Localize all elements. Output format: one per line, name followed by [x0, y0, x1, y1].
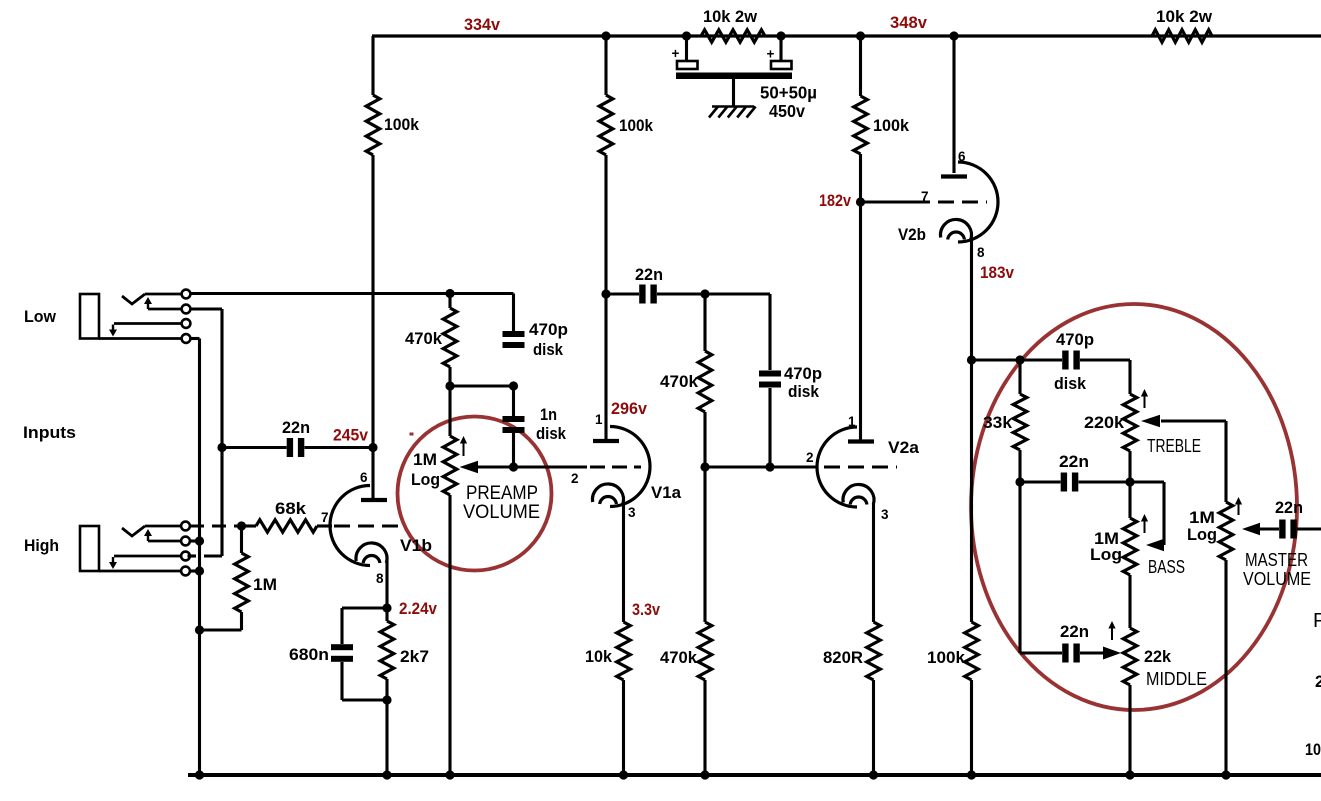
node junction ground bus High switch: [195, 536, 204, 545]
svg-text:High: High: [24, 537, 59, 555]
connector terminal Low sleeve: [182, 334, 191, 343]
connector terminal High sleeve: [181, 567, 190, 576]
potentiometer 1M Log master volume: [1219, 502, 1233, 560]
node junction HT filter cap right: [776, 31, 785, 40]
svg-text:470p: 470p: [529, 321, 568, 339]
connector High input jack: [80, 526, 99, 571]
wire output to tone stack top: [972, 358, 1063, 361]
potentiometer 1M Log preamp volume: [448, 386, 451, 436]
node junction HT to V1a plate resistor: [601, 31, 610, 40]
node junction ground bus High sleeve: [195, 566, 204, 575]
svg-text:Log: Log: [1090, 546, 1122, 564]
svg-text:470k: 470k: [660, 649, 698, 667]
node junction disk caps mid: [509, 381, 518, 390]
node junction 1n to wiper wire: [509, 462, 518, 471]
resistor 100k tail to ground: [965, 622, 979, 680]
capacitor 22n bass: [1061, 473, 1067, 492]
node junction 33k to 22n bass: [1015, 477, 1024, 486]
wire 22n to 245v plate node: [305, 446, 374, 449]
wire V1b cathode to 2.24v node: [385, 559, 388, 608]
wire HT rail 334v/348v top: [372, 34, 1321, 37]
node junction to 22n input coupling: [217, 443, 226, 452]
node junction ground 470k: [700, 770, 709, 779]
svg-text:V1a: V1a: [651, 484, 682, 502]
capacitor 50+50u 450v filter can: [685, 36, 688, 61]
svg-text:245v: 245v: [333, 426, 368, 445]
wiper arrow treble: [1141, 415, 1160, 428]
svg-text:3: 3: [628, 505, 636, 520]
node junction ground master pot: [1221, 770, 1230, 779]
node junction ground preamp pot: [445, 770, 454, 779]
svg-text:22n: 22n: [282, 419, 310, 437]
red highlight circle around preamp volume pot: [398, 417, 552, 571]
wire V2b plate from HT: [952, 36, 955, 173]
svg-text:2: 2: [571, 471, 579, 486]
svg-text:2k7: 2k7: [400, 648, 429, 666]
svg-text:disk: disk: [1054, 375, 1087, 393]
node junction HT filter cap left: [682, 31, 691, 40]
svg-text:V1b: V1b: [400, 537, 432, 555]
svg-text:820R: 820R: [823, 649, 863, 667]
wire wiper to V1a grid: [514, 465, 588, 468]
svg-text:6: 6: [360, 470, 368, 485]
red highlight ellipse around tone stack: [971, 304, 1297, 710]
wire V1b grid dashes: [334, 524, 402, 527]
svg-text:334v: 334v: [464, 15, 501, 34]
wire ground rail: [188, 773, 1321, 777]
wire 22n to V2a grid network: [657, 292, 770, 295]
wire 182v to V2b grid: [861, 200, 931, 203]
wire 33k node to 22n bass cap: [1020, 480, 1061, 483]
node junction treble/bass: [1125, 477, 1134, 486]
svg-text:+: +: [767, 47, 775, 62]
wire V1a cathode down: [622, 503, 625, 622]
resistor 470k V2a grid leak upper: [703, 294, 706, 351]
resistor 100k V1a plate load: [604, 36, 607, 95]
node junction ground 820R: [869, 770, 878, 779]
node junction 33k tap: [1015, 355, 1024, 364]
capacitor 680n cathode bypass: [342, 606, 387, 609]
node junction 182v: [856, 197, 865, 206]
connector terminal Low contact 3: [182, 319, 191, 328]
resistor 10k 2w (second HT dropper): [1152, 30, 1212, 42]
node junction V1a plate to 22n: [601, 289, 610, 298]
resistor 820R V2a cathode: [867, 622, 881, 680]
svg-text:348v: 348v: [890, 13, 928, 32]
wire High tip dashed link to grid node: [190, 524, 238, 527]
svg-text:Log: Log: [1187, 526, 1217, 544]
svg-text:1M: 1M: [1189, 509, 1215, 527]
wire master 22n to edge: [1297, 527, 1321, 530]
svg-text:+: +: [672, 46, 680, 61]
stray red mark: [410, 433, 414, 436]
svg-text:8: 8: [977, 245, 985, 260]
capacitor 22n master output: [1279, 520, 1285, 539]
capacitor 470p disk V2a: [768, 294, 771, 370]
wire V2a cathode down: [872, 504, 875, 622]
svg-text:Inputs: Inputs: [23, 424, 76, 442]
node junction cathode follower output: [967, 355, 976, 364]
svg-text:VOLUME: VOLUME: [1243, 569, 1311, 589]
svg-text:450v: 450v: [769, 101, 805, 121]
svg-text:Log: Log: [411, 471, 440, 489]
svg-text:10k 2w: 10k 2w: [703, 8, 757, 26]
triode V1b: [330, 486, 370, 566]
svg-text:TREBLE: TREBLE: [1147, 436, 1201, 456]
svg-text:100k: 100k: [619, 117, 654, 135]
wire 22n bass to treble bottom junction: [1079, 480, 1131, 483]
svg-text:22k: 22k: [1144, 648, 1172, 666]
wire High sleeve to ground bus: [190, 569, 200, 572]
potentiometer 22k middle: [1123, 628, 1137, 685]
resistor 470k lower to ground: [703, 467, 706, 622]
svg-text:470p: 470p: [784, 365, 822, 383]
svg-text:disk: disk: [788, 383, 820, 401]
wire 470p to treble pot top: [1080, 358, 1130, 361]
wire V2a plate node 182v direct coupling: [859, 154, 862, 440]
svg-text:8: 8: [376, 571, 384, 586]
wire 1M bottom to ground bus: [240, 612, 243, 630]
svg-text:VOLUME: VOLUME: [463, 501, 540, 523]
svg-text:6: 6: [958, 149, 966, 164]
svg-text:disk: disk: [536, 425, 567, 443]
svg-text:22n: 22n: [1275, 499, 1303, 517]
wire V1a plate node 296v: [604, 155, 607, 439]
svg-text:22n: 22n: [1060, 623, 1089, 641]
node junction 680n/2k7 bottom: [382, 695, 391, 704]
node junction ground 10k: [619, 770, 628, 779]
node junction V2a grid 470p: [765, 462, 774, 471]
svg-text:22n: 22n: [1059, 453, 1089, 471]
triode V2a: [817, 427, 857, 507]
svg-text:V2a: V2a: [888, 439, 920, 457]
resistor 68k grid stopper: [242, 524, 257, 527]
wire V2b grid dashes: [938, 200, 987, 203]
svg-text:470k: 470k: [405, 330, 443, 348]
svg-text:1: 1: [595, 412, 603, 427]
capacitor 470p disk treble cap: [1062, 351, 1068, 370]
node junction ground middle pot: [1125, 770, 1134, 779]
svg-text:7: 7: [321, 510, 329, 525]
resistor 33k tone slope: [1018, 360, 1021, 394]
wire V1a grid dashes: [590, 465, 641, 468]
node junction top of 470k grid leak: [445, 289, 454, 298]
resistor 470k slope/grid-leak: [448, 294, 451, 309]
svg-text:33k: 33k: [983, 414, 1013, 432]
wire cathode network to ground rail: [385, 679, 388, 775]
svg-text:100k: 100k: [927, 649, 966, 667]
resistor 2k7 cathode bias: [385, 608, 388, 621]
svg-text:10k: 10k: [585, 648, 613, 666]
svg-text:1M: 1M: [413, 451, 437, 469]
triode V2b: [958, 162, 998, 242]
svg-text:100k: 100k: [384, 116, 420, 134]
svg-text:470k: 470k: [660, 373, 699, 391]
capacitor 470p disk bright cap: [512, 294, 515, 332]
svg-text:1n: 1n: [540, 406, 557, 424]
wire Low tip to 470k/preamp network: [191, 292, 514, 295]
svg-text:3: 3: [881, 507, 889, 522]
node junction top of 470k V2a grid leak: [700, 289, 709, 298]
capacitor 22n middle: [1062, 644, 1068, 663]
connector terminal High contact 3: [181, 552, 190, 561]
node junction 1M to ground bus: [195, 625, 204, 634]
svg-text:68k: 68k: [275, 500, 307, 518]
node junction HT to V2a plate resistor: [856, 31, 865, 40]
node junction 245v: [368, 443, 377, 452]
resistor 100k V2a plate load: [859, 36, 862, 96]
wire output node down to 100k: [970, 360, 973, 622]
node junction 470k bottom: [445, 381, 454, 390]
wire 470k to cap mid junction: [450, 384, 514, 387]
svg-text:disk: disk: [533, 341, 564, 359]
svg-text:183v: 183v: [980, 263, 1014, 282]
svg-text:100k: 100k: [873, 117, 910, 135]
potentiometer 1M Log bass: [1128, 482, 1131, 518]
svg-text:3.3v: 3.3v: [632, 600, 660, 619]
svg-text:10k 2w: 10k 2w: [1156, 8, 1212, 26]
svg-text:2: 2: [1315, 673, 1321, 691]
svg-text:2.24v: 2.24v: [399, 599, 437, 618]
wire to 22n input coupling cap: [222, 446, 287, 449]
node junction 2.24v cathode: [382, 603, 391, 612]
wiper arrow bass: [1146, 539, 1164, 552]
node junction HT to V2b plate: [949, 31, 958, 40]
wire V2a grid node: [705, 465, 816, 468]
connector Low input jack: [80, 294, 99, 339]
svg-text:182v: 182v: [819, 191, 851, 210]
svg-text:220k: 220k: [1084, 414, 1125, 432]
wire V2b cathode down 183v: [970, 239, 973, 360]
wire V2a grid dashes: [824, 465, 897, 468]
connector terminal Low switch: [182, 305, 191, 314]
potentiometer 220k treble: [1123, 394, 1137, 451]
svg-text:P: P: [1313, 610, 1321, 632]
svg-text:50+50µ: 50+50µ: [760, 83, 817, 103]
node junction 68k/1M grid node: [237, 521, 246, 530]
node junction ground 2k7: [382, 770, 391, 779]
triode V1a: [610, 427, 650, 507]
resistor 100k V1b plate load: [371, 36, 374, 95]
svg-text:Low: Low: [24, 308, 56, 326]
connector terminal High switch: [181, 537, 190, 546]
wiper arrow middle: [1080, 651, 1104, 654]
node junction ground input bus: [195, 770, 204, 779]
wire Low sleeve to ground bus: [191, 337, 200, 340]
svg-text:22n: 22n: [635, 266, 663, 284]
wire link to High jack contact 3: [204, 554, 222, 557]
wiper arrow master volume: [1242, 523, 1260, 536]
svg-text:MIDDLE: MIDDLE: [1146, 669, 1207, 689]
wire bass pot to middle pot: [1128, 575, 1131, 628]
svg-text:BASS: BASS: [1148, 557, 1185, 577]
svg-text:2: 2: [806, 450, 814, 465]
svg-text:296v: 296v: [611, 399, 648, 418]
resistor 10k V1a cathode: [617, 622, 631, 680]
wire 33k node down to middle cap: [1018, 482, 1021, 653]
wire junction to bass wiper: [1130, 480, 1164, 483]
node junction ground 100k: [967, 770, 976, 779]
svg-text:V2b: V2b: [898, 226, 926, 244]
capacitor 1n disk: [512, 386, 515, 416]
ground symbol below filter can: [732, 79, 735, 106]
wire V1a plate to 22n: [606, 292, 639, 295]
wire V1b plate node 245v: [371, 155, 374, 498]
wire High switch to ground bus: [190, 539, 200, 542]
svg-text:470p: 470p: [1056, 331, 1094, 349]
resistor 10k 2w (first HT dropper): [701, 30, 765, 42]
connector terminal High tip: [181, 522, 190, 531]
svg-text:1: 1: [848, 414, 856, 429]
wire Low switch contact down to 22n input node: [191, 307, 223, 310]
capacitor 22n input coupling: [287, 438, 293, 457]
svg-text:680n: 680n: [289, 646, 329, 664]
svg-text:MASTER: MASTER: [1245, 550, 1308, 570]
svg-text:1M: 1M: [253, 576, 277, 594]
wiper arrow preamp volume: [460, 461, 479, 474]
node junction V2a grid left: [700, 462, 709, 471]
resistor 1M input grid leak: [240, 526, 243, 553]
wire treble wiper to master volume top: [1224, 421, 1227, 502]
svg-text:10: 10: [1305, 741, 1321, 759]
capacitor 22n interstage coupling: [639, 285, 645, 304]
connector terminal Low tip: [182, 290, 191, 299]
